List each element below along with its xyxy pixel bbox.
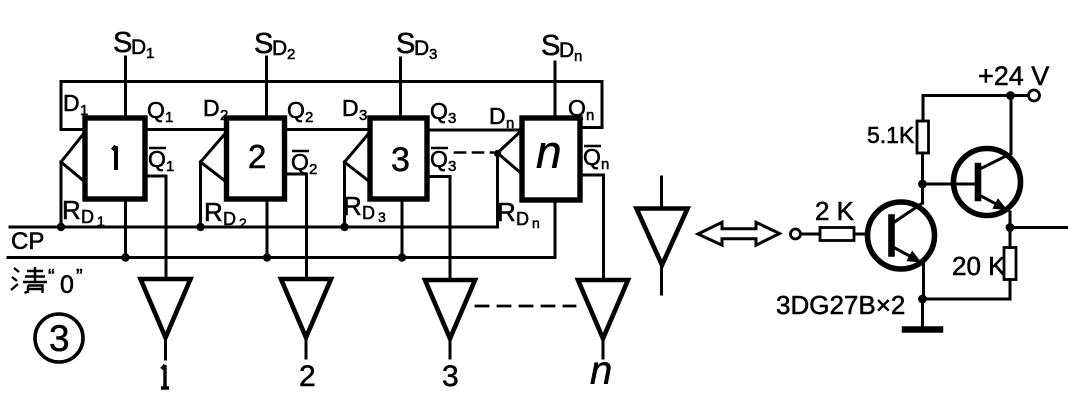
svg-text:3: 3 <box>448 158 456 175</box>
wire feedback frame Qn to D1 <box>61 82 602 130</box>
svg-text:3: 3 <box>391 141 410 179</box>
inverter 2 <box>281 279 331 338</box>
wire Q1 collector up <box>921 184 924 203</box>
transistor Q2 emitter <box>980 196 1008 211</box>
svg-text:D: D <box>223 209 236 229</box>
svg-text:R: R <box>204 197 223 227</box>
wire to ground <box>921 299 924 327</box>
clock wedge FFn <box>498 130 523 174</box>
wire FF2 clock to CP <box>199 162 202 227</box>
inverter n <box>578 280 628 339</box>
svg-text:Q: Q <box>291 149 309 175</box>
wire SD1 input <box>124 57 127 118</box>
svg-text:n: n <box>574 48 582 65</box>
svg-text:n: n <box>506 115 514 132</box>
svg-text:D: D <box>131 36 146 59</box>
node clear FF2 junction <box>263 253 271 261</box>
svg-text:n: n <box>536 126 562 178</box>
flip-flop FF1 <box>85 118 145 199</box>
transistor Q1 emitter <box>893 247 922 263</box>
svg-text:D: D <box>516 209 529 229</box>
svg-text:2: 2 <box>305 109 313 126</box>
svg-text:S: S <box>254 28 273 60</box>
label clear 0 (Chinese qing) <box>11 267 47 293</box>
svg-text:R: R <box>497 197 516 227</box>
wire emitter rail <box>923 298 1011 301</box>
wire FF1 clock to CP <box>60 162 63 227</box>
svg-text:S: S <box>541 30 560 62</box>
svg-text:D: D <box>272 37 287 60</box>
svg-text:2: 2 <box>299 360 316 393</box>
svg-text:S: S <box>113 27 132 59</box>
svg-text:D: D <box>362 203 375 223</box>
svg-text:3: 3 <box>442 360 459 393</box>
svg-text:D: D <box>559 39 574 62</box>
node output junction <box>1006 223 1015 232</box>
node Q1 collector junction <box>918 180 927 189</box>
wire CP bus <box>10 226 498 229</box>
transistor Q2 <box>954 149 1021 216</box>
wire output to 20K <box>1009 228 1012 248</box>
label FF1 number <box>113 146 117 170</box>
node CP FF3 junction <box>340 223 348 231</box>
wire SD3 input <box>399 58 402 119</box>
svg-text:1: 1 <box>80 102 88 119</box>
svg-text:Q: Q <box>148 146 166 172</box>
node FFn wedge junction <box>494 150 501 157</box>
svg-text:2: 2 <box>287 46 295 63</box>
svg-text:D: D <box>489 103 506 129</box>
resistor 2K <box>820 228 854 241</box>
dashed ellipsis inverter 3 to inverter n <box>476 305 575 308</box>
label inverter 1 output <box>161 365 169 388</box>
wire 5.1K bottom <box>921 153 924 184</box>
wire FF3 RD to clear line <box>401 199 404 258</box>
node ground junction <box>918 295 927 304</box>
transistor Q2 emitter arrowhead <box>992 198 1007 210</box>
equivalence double arrow <box>698 222 780 245</box>
svg-text:1: 1 <box>165 109 173 126</box>
transistor Q2 collector <box>980 154 1011 170</box>
wire Q1 to D2 <box>145 128 227 131</box>
flip-flop FF3 <box>370 118 427 199</box>
svg-text:n: n <box>586 107 594 124</box>
svg-text:Q: Q <box>568 95 586 121</box>
svg-text:D: D <box>203 95 220 121</box>
transistor Q1 emitter arrowhead <box>906 251 921 263</box>
wire FFn RD to clear line <box>554 200 557 258</box>
svg-text:S: S <box>396 28 415 60</box>
svg-text:Q: Q <box>147 97 165 123</box>
wire 5.1K top to rail <box>922 96 925 122</box>
svg-text:R: R <box>343 191 362 221</box>
wire Q1 emitter down <box>922 264 925 299</box>
svg-text:R: R <box>62 195 81 225</box>
dashed ellipsis Q3bar to FFn <box>455 151 493 154</box>
transistor Q1 base bar <box>888 218 895 254</box>
wire Q2 collector to +24V <box>1010 96 1013 154</box>
clock wedge FF3 <box>345 132 371 182</box>
wire output right <box>1010 226 1068 229</box>
node clear FF3 junction <box>398 253 406 261</box>
svg-text:2: 2 <box>309 161 317 178</box>
transistor Q2 base bar <box>975 166 982 198</box>
svg-text:3DG27B×2: 3DG27B×2 <box>776 290 905 320</box>
svg-text:20 K: 20 K <box>952 251 1006 281</box>
wire FF1 RD to clear line <box>124 199 127 258</box>
node CP FF2 junction <box>196 223 204 231</box>
wire inverter U5 input <box>660 177 663 209</box>
transistor Q1 <box>868 202 935 269</box>
inverter U5 middle symbol <box>637 209 688 266</box>
svg-text:5.1K: 5.1K <box>867 122 915 148</box>
resistor 5.1K <box>917 121 929 153</box>
wire 20K bottom <box>1009 280 1012 300</box>
svg-text:“: “ <box>48 266 55 288</box>
wire SD2 input <box>265 57 268 118</box>
wire inverter 2 output <box>305 338 308 359</box>
svg-text:2 K: 2 K <box>815 196 855 226</box>
wire 2K to Q1 base <box>854 233 868 236</box>
svg-text:3: 3 <box>448 110 456 127</box>
wire Qnbar to inverter n <box>580 175 604 280</box>
wire clear bus <box>8 256 555 259</box>
svg-text:+24 V: +24 V <box>978 61 1049 91</box>
wire inverter U5 output <box>660 265 663 294</box>
svg-text:Q: Q <box>287 97 305 123</box>
svg-text:CP: CP <box>11 228 44 255</box>
node CP FF1 junction <box>57 223 65 231</box>
wire inverter 1 output <box>164 338 167 360</box>
wire Q3 to Dn <box>427 129 522 132</box>
clock wedge FF1 <box>61 132 85 182</box>
wire FF2 RD to clear line <box>266 199 269 258</box>
node clear FF1 junction <box>121 253 129 261</box>
node +24V junction <box>1006 91 1015 100</box>
flip-flop FFn <box>522 118 580 200</box>
wire input to R 2K <box>801 233 821 236</box>
transistor Q1 collector <box>893 203 923 223</box>
svg-text:Q: Q <box>430 146 448 172</box>
inverter 3 <box>425 280 475 339</box>
wire inverter 3 output <box>449 339 452 359</box>
wire Q2bar to inverter 2 <box>285 174 307 279</box>
svg-text:Q: Q <box>583 144 601 170</box>
resistor 20K <box>1004 248 1016 280</box>
svg-text:2: 2 <box>220 107 228 124</box>
wire Q2 to D3 <box>285 128 371 131</box>
wire FFn clock to CP <box>496 153 499 227</box>
wire Q1 collector to Q2 base <box>923 183 978 186</box>
svg-text:n: n <box>601 156 609 173</box>
wire inverter n output <box>602 339 605 359</box>
ground <box>905 326 940 333</box>
svg-text:1: 1 <box>146 45 154 62</box>
svg-text:n: n <box>590 349 612 393</box>
inverter 1 <box>141 279 191 338</box>
svg-text:3: 3 <box>49 318 70 359</box>
svg-text:Q: Q <box>430 98 448 124</box>
svg-text:D: D <box>81 207 94 227</box>
badge circled 3 <box>35 314 83 362</box>
wire +24V rail <box>923 94 1029 97</box>
clock wedge FF2 <box>201 132 227 182</box>
svg-text:D: D <box>414 37 429 60</box>
svg-text:3: 3 <box>359 107 367 124</box>
svg-text:1: 1 <box>166 158 174 175</box>
input terminal circle <box>791 229 801 239</box>
svg-text:3: 3 <box>429 46 437 63</box>
svg-text:2: 2 <box>239 215 247 231</box>
svg-text:n: n <box>532 215 540 231</box>
wire SDn input <box>554 62 557 118</box>
svg-text:D: D <box>342 95 359 121</box>
wire FF3 clock to CP <box>343 162 346 227</box>
wire Q1bar to inverter 1 <box>145 176 166 279</box>
svg-text:”: ” <box>76 266 83 288</box>
svg-text:3: 3 <box>378 209 386 225</box>
svg-text:0: 0 <box>60 271 74 299</box>
svg-text:2: 2 <box>248 138 266 175</box>
wire Q2 emitter down <box>1009 212 1012 228</box>
svg-text:1: 1 <box>97 213 105 229</box>
flip-flop FF2 <box>227 118 285 199</box>
wire Q3bar to inverter 3 <box>427 177 450 281</box>
terminal +24V circle <box>1029 90 1040 101</box>
svg-text:D: D <box>63 90 80 116</box>
